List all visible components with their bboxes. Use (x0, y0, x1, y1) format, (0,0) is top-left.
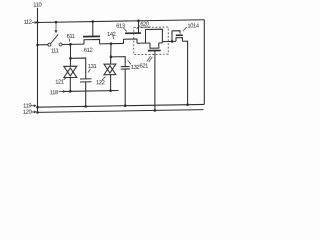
transistor Q613 gate feed from rail (138, 21, 140, 33)
wire: branch to capacitor 122a (71, 58, 86, 79)
underline 620 (140, 26, 151, 28)
capacitor C 132 bottom plate (121, 68, 130, 70)
label 120 with leader (23, 110, 32, 116)
dashed box 620 (134, 27, 168, 55)
svg-text:110: 110 (33, 2, 41, 8)
transistor Q1014 gate bar (176, 34, 183, 36)
switch S 111 right contact (59, 43, 62, 46)
leader 611 (68, 39, 71, 42)
node: rail-supply junction (36, 21, 38, 23)
svg-text:120: 120 (23, 110, 32, 116)
node: cap 132 on 119 (124, 104, 127, 107)
leader 613 (124, 28, 127, 31)
varistor 131 upper triangle (104, 64, 116, 73)
node: junction at 57 (110, 56, 113, 59)
leader 131 (88, 69, 91, 73)
wire 118 (65, 90, 119, 93)
node: rail dot above switch (55, 21, 58, 24)
wire: junction 142 down to varistor 131 (110, 44, 112, 64)
wire: right edge vertical (203, 20, 205, 105)
transistor Q613 channel (124, 39, 138, 43)
svg-text:612: 612 (84, 48, 93, 54)
wire: branch to capacitor 132 (111, 57, 125, 67)
leader 122 (102, 77, 106, 80)
node: cap 122a on 119 (84, 105, 87, 108)
svg-text:122: 122 (96, 80, 105, 86)
transistor Q621 inverted channel (150, 43, 159, 48)
label 142 (107, 32, 116, 38)
leader 112 (32, 21, 37, 23)
wire: 613 to block (137, 42, 150, 44)
svg-text:131: 131 (88, 64, 97, 70)
node: junction at 58 (69, 57, 72, 60)
label 122 (96, 80, 105, 86)
label 119 with leader (23, 103, 31, 109)
label 111 (51, 48, 59, 54)
wire 120 (38, 110, 204, 113)
leader 142 (113, 36, 114, 39)
leader 132 (128, 60, 131, 64)
capacitor C 132 top plate (121, 66, 130, 68)
node: 121 on 118 (69, 90, 72, 93)
node: junction at 142 (110, 42, 113, 45)
transistor Q612 gate bar (83, 35, 100, 37)
node: junction to varistor 121 (69, 43, 72, 46)
wire: top rail 112 (38, 20, 205, 23)
varistor 131 lower triangle (104, 65, 116, 74)
leader 120 (31, 111, 36, 113)
label 621 (140, 63, 149, 69)
node: output junction (171, 40, 174, 43)
svg-text:621: 621 (140, 63, 149, 69)
wire: junction 121 branch down (70, 44, 72, 66)
wire: switch to transistor 612 (62, 43, 84, 45)
wire: to switch contact (38, 44, 48, 46)
svg-text:1014: 1014 (187, 23, 199, 29)
label 132 (131, 65, 140, 71)
wire: Q1014 drain down (182, 41, 187, 105)
transistor Q621 gate lead down (154, 51, 156, 111)
svg-text:611: 611 (67, 34, 75, 40)
block drain plate rectangle (146, 29, 163, 43)
label 110 (33, 2, 41, 8)
varistor 121 upper triangle (64, 66, 77, 76)
switch actuator line from rail (55, 23, 57, 33)
label 1014 (187, 23, 199, 29)
leader 118 (59, 90, 65, 92)
wire: capacitor 132 to wire 119 (124, 69, 126, 106)
svg-text:119: 119 (23, 103, 31, 109)
svg-text:121: 121 (55, 79, 64, 85)
label 131 (88, 64, 97, 70)
transistor Q612 gate lead (92, 22, 94, 37)
transistor Q1014 channel (176, 38, 182, 42)
svg-text:132: 132 (131, 65, 140, 71)
capacitor C 122a top plate (80, 78, 92, 80)
label 620 with underline (140, 22, 149, 28)
leader 119 (31, 105, 36, 107)
wire: varistor 131 to wire 118 (110, 75, 112, 91)
varistor 121 lower triangle (64, 68, 77, 78)
label 112 with leader arrow (24, 20, 32, 26)
label 611 (67, 34, 75, 40)
transistor Q612 channel (84, 39, 100, 44)
svg-text:112: 112 (24, 20, 32, 26)
switch S 111 left contact (48, 43, 51, 46)
wire: gate feed loop of Q1014 (172, 31, 180, 42)
wire: varistor 121 to wire 118 (69, 78, 71, 92)
wire: capacitor to wire 119 (85, 82, 87, 107)
svg-text:142: 142 (107, 32, 116, 38)
capacitor C 122a bottom plate (80, 81, 92, 83)
node: 131 on 118 (109, 89, 112, 92)
leader 620 (137, 26, 140, 29)
label 612 (84, 48, 93, 54)
wire: vertical supply line 110 (37, 8, 39, 113)
node: supply on 119 (36, 106, 39, 109)
leader 1014 (183, 27, 187, 31)
label 118 with leader (50, 90, 58, 96)
node: Q1014 drain on 119 (186, 103, 189, 106)
wire: 612 to 613 (100, 42, 124, 44)
leader 621 (147, 56, 153, 62)
wire: block output (162, 40, 176, 42)
label 121 (55, 79, 64, 85)
node: Q621 gate on 120 (154, 109, 157, 112)
transistor Q613 gate bar (125, 32, 141, 34)
node: supply on 120 (36, 111, 39, 114)
leader 121 (64, 77, 67, 80)
node: rail dot at 613 gate feed (137, 19, 140, 22)
wire 119 (38, 104, 205, 107)
node: switch wire start junction (36, 44, 39, 47)
svg-text:111: 111 (51, 48, 59, 54)
transistor Q621 gate bar (148, 49, 161, 51)
label 613 (116, 24, 125, 30)
svg-text:118: 118 (50, 90, 58, 96)
node: rail dot at 612 gate (92, 20, 95, 23)
switch arm (51, 34, 59, 43)
